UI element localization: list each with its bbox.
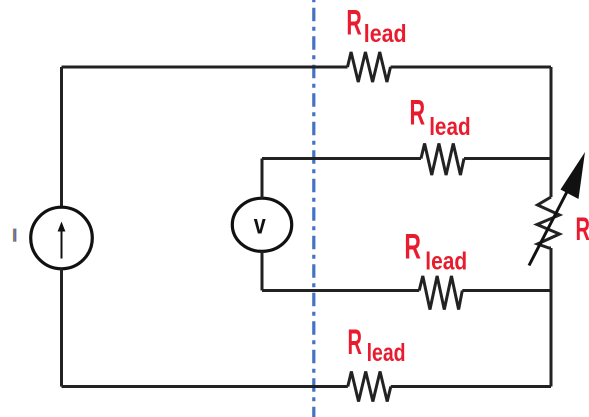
wire right rail upper <box>550 67 553 197</box>
wire voltmeter stem lower <box>261 251 264 290</box>
svg-text:lead: lead <box>425 248 467 276</box>
resistor Rlead3 (sense low) <box>419 276 462 310</box>
voltmeter V <box>232 198 291 251</box>
wire right rail lower <box>550 248 553 387</box>
wire bottom right: Rlead4 to right rail <box>391 385 551 388</box>
svg-text:lead: lead <box>364 20 407 48</box>
wire sense high: voltmeter to Rlead2 <box>262 157 421 160</box>
wire voltmeter stem upper <box>261 159 264 199</box>
wire left rail upper <box>60 67 63 207</box>
resistor Rlead2 (sense high) <box>421 144 464 176</box>
svg-text:R: R <box>576 211 589 247</box>
wire bottom left: left rail to Rlead4 <box>62 385 348 388</box>
boundary line (blue dash-dot) <box>312 0 315 417</box>
svg-text:lead: lead <box>367 339 406 367</box>
label Rlead3 <box>404 228 467 276</box>
wire sense low: voltmeter to Rlead3 <box>262 289 419 292</box>
wire left rail lower <box>60 269 63 387</box>
resistor Rlead1 (top) <box>348 52 391 82</box>
label Rlead2 <box>410 94 471 141</box>
wire top right: Rlead1 to right rail <box>391 66 552 69</box>
svg-text:R: R <box>410 94 426 133</box>
svg-text:v: v <box>254 209 266 240</box>
resistor Rlead4 (bottom) <box>348 372 391 402</box>
wire Rlead2 to right rail <box>464 157 551 160</box>
wire top: node from current source high to Rlead1 <box>62 66 348 69</box>
label Rlead4 <box>348 323 406 367</box>
svg-text:R: R <box>348 323 363 362</box>
variable-resistor arrow through R <box>529 152 585 266</box>
label I <box>13 229 17 242</box>
svg-text:R: R <box>404 228 421 267</box>
svg-text:lead: lead <box>429 113 470 141</box>
resistor R (device under test, vertical) <box>537 197 560 248</box>
svg-text:R: R <box>346 4 361 43</box>
label Rlead1 <box>346 4 406 49</box>
current source I <box>31 207 93 269</box>
wire Rlead3 to right rail <box>462 289 551 292</box>
